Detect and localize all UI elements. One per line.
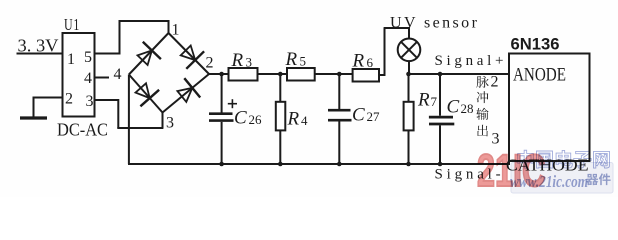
- capacitor C28 plates: [429, 116, 453, 119]
- svg-text:4: 4: [114, 66, 122, 83]
- watermark 21IC: [477, 147, 545, 196]
- resistor R4 wires: [279, 74, 281, 102]
- svg-text:Signal+: Signal+: [435, 53, 508, 69]
- svg-text:2: 2: [206, 55, 214, 72]
- svg-text:R: R: [417, 89, 430, 110]
- junction R4 bottom: [278, 162, 283, 167]
- svg-text:6: 6: [367, 55, 374, 70]
- svg-text:UV sensor: UV sensor: [390, 14, 479, 31]
- resistor R5: [287, 68, 315, 81]
- resistor R4: [276, 102, 286, 131]
- svg-text:3: 3: [492, 131, 500, 148]
- svg-text:1: 1: [67, 51, 75, 68]
- wire bottom rail (Signal- net): [128, 163, 510, 165]
- svg-text:DC-AC: DC-AC: [57, 120, 108, 140]
- junction C28 top: [438, 72, 443, 77]
- junction R4 top: [278, 72, 283, 77]
- capacitor C26 polarity +: [228, 103, 237, 105]
- svg-text:R: R: [352, 51, 365, 72]
- watermark chars 器件: [586, 173, 610, 185]
- capacitor C28 wires: [439, 74, 441, 116]
- junction C26 bottom: [219, 162, 224, 167]
- wire bridge edge 4-3: [129, 75, 163, 113]
- svg-text:2: 2: [491, 74, 499, 91]
- svg-text:5: 5: [300, 54, 307, 69]
- optocoupler 6N136 body: [509, 54, 590, 162]
- svg-text:7: 7: [431, 94, 438, 109]
- wire bridge edge 3-2: [163, 74, 210, 113]
- lamp UV sensor: [398, 39, 421, 62]
- diode bridge bottom-right (3 to 2): [177, 88, 192, 102]
- svg-text:3: 3: [166, 115, 174, 132]
- svg-text:6N136: 6N136: [511, 35, 560, 54]
- ground: [20, 116, 47, 119]
- diode bridge bottom-left (4 to 3): [136, 83, 150, 98]
- wire U1 pin 5 to bridge node 1: [95, 53, 120, 55]
- svg-text:R: R: [287, 109, 300, 130]
- capacitor C27 wires: [338, 74, 340, 109]
- svg-text:2: 2: [65, 91, 73, 108]
- svg-text:3: 3: [86, 93, 94, 110]
- junction C27 bottom: [337, 162, 342, 167]
- svg-text:4: 4: [84, 70, 92, 87]
- diode bridge top-right (1 to 2): [181, 46, 196, 61]
- resistor R6: [353, 69, 379, 82]
- watermark outlined chars 中国电子网: [518, 150, 534, 168]
- resistor R7 wires: [408, 74, 410, 102]
- wire bridge node 4 down to bottom rail: [128, 75, 130, 165]
- svg-text:C: C: [352, 105, 365, 126]
- wire Signal+ to 6N136 anode: [408, 73, 510, 75]
- capacitor C26 wire bottom: [221, 122, 223, 164]
- junction C27 top: [337, 72, 342, 77]
- capacitor C26 wire top: [221, 74, 223, 113]
- wire 3.3V to U1 pin 1: [17, 53, 63, 55]
- wire bridge edge 1-2: [169, 33, 210, 74]
- watermark panel: [511, 163, 613, 194]
- resistor R7: [404, 102, 414, 131]
- junction C28 bottom: [438, 162, 443, 167]
- svg-text:1: 1: [172, 22, 180, 39]
- svg-text:U1: U1: [64, 15, 80, 34]
- svg-text:C: C: [447, 97, 460, 118]
- watermark script www.21ic.com: [510, 172, 588, 191]
- capacitor C26 plates: [209, 112, 233, 115]
- junction R7 bottom: [406, 162, 411, 167]
- svg-text:28: 28: [461, 101, 474, 116]
- svg-text:27: 27: [367, 109, 381, 124]
- wire bridge edge 4-1: [129, 33, 169, 75]
- junction node2/C26 top: [219, 72, 224, 77]
- junction lamp/R7 top: [406, 72, 411, 77]
- svg-text:5: 5: [84, 49, 92, 66]
- svg-text:R: R: [231, 50, 244, 71]
- svg-text:R: R: [285, 49, 298, 70]
- wire U1 pin 4 stub: [95, 77, 110, 79]
- svg-text:26: 26: [249, 112, 263, 127]
- resistor R3: [229, 68, 258, 81]
- wire R5 to R6: [315, 73, 353, 75]
- wire lamp to Signal+ junction: [408, 61, 410, 75]
- wire R6 to UV sensor lamp: [379, 74, 385, 76]
- capacitor C27 plates: [328, 109, 351, 112]
- label pulse output (Chinese vertical): [476, 76, 488, 88]
- diode bridge top-left (4 to 1): [138, 50, 152, 65]
- wire U1 pin 2 to ground: [34, 97, 63, 99]
- wire R3 to R5: [258, 73, 288, 75]
- wire U1 pin 3 to bridge node 3: [95, 99, 119, 101]
- svg-text:C: C: [234, 107, 247, 128]
- svg-text:ANODE: ANODE: [513, 65, 566, 86]
- IC U1 DC-AC converter body: [63, 33, 95, 117]
- wire node 2 to R3: [208, 73, 229, 75]
- svg-text:4: 4: [301, 113, 308, 128]
- svg-text:3: 3: [246, 55, 253, 70]
- svg-text:www.21ic.com: www.21ic.com: [510, 172, 588, 191]
